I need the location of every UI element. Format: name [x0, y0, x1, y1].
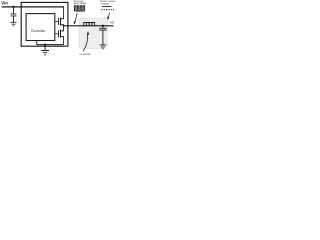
- arrow to switch node: [75, 13, 77, 21]
- output capacitor wire upper: [102, 26, 104, 29]
- input capacitor wire upper: [13, 7, 15, 14]
- arrow low pass filter: [83, 35, 88, 51]
- transistor Q2 channel bar: [60, 30, 62, 38]
- ground symbol controller: [41, 51, 49, 55]
- switch node wire to output: [64, 25, 114, 27]
- ground symbol output: [100, 45, 107, 49]
- DC solid line: [102, 6, 112, 8]
- arrow to Vo: [109, 13, 110, 17]
- svg-text:voltage: voltage: [100, 2, 109, 5]
- Vin rail wire: [2, 6, 65, 8]
- low pass filter shaded box: [79, 18, 107, 48]
- svg-text:Controller: Controller: [31, 29, 46, 33]
- output junction dot: [102, 25, 104, 27]
- junction dot switch node: [63, 25, 65, 27]
- ground stub down: [44, 45, 46, 51]
- transistor Q1 gate bar: [58, 18, 60, 25]
- svg-text:Vin: Vin: [1, 1, 8, 6]
- enclosure box: [21, 2, 68, 46]
- transistor Q1 channel bar: [60, 18, 62, 26]
- controller box U1: [26, 14, 55, 41]
- output capacitor wire lower: [102, 30, 104, 45]
- gate wire Q2: [55, 33, 58, 35]
- ground wire: [37, 44, 64, 46]
- controller ground pin stub: [36, 41, 38, 45]
- input capacitor C1 plates: [11, 14, 17, 16]
- junction dot ground wire: [44, 43, 46, 45]
- svg-text:Direct current: Direct current: [100, 0, 116, 3]
- junction dot at input cap: [12, 6, 14, 8]
- inductor L1 bumps: [84, 23, 95, 26]
- svg-text:Low pass filter: Low pass filter: [79, 53, 91, 56]
- transistor Q1 drain lead: [61, 7, 64, 19]
- transistor Q2 drain lead: [61, 26, 64, 31]
- transistor Q1 source lead: [61, 25, 64, 26]
- input capacitor wire lower: [13, 16, 15, 22]
- DC dotted line: [102, 9, 114, 11]
- gate wire Q1: [55, 21, 58, 23]
- svg-text:wave voltage: wave voltage: [74, 2, 87, 5]
- pulse waveform: [74, 6, 84, 11]
- ground symbol input: [11, 22, 17, 26]
- output capacitor C2 plates: [99, 28, 106, 30]
- transistor Q2 gate bar: [58, 30, 60, 37]
- svg-text:Vo: Vo: [110, 20, 114, 24]
- transistor Q2 source lead: [61, 37, 64, 45]
